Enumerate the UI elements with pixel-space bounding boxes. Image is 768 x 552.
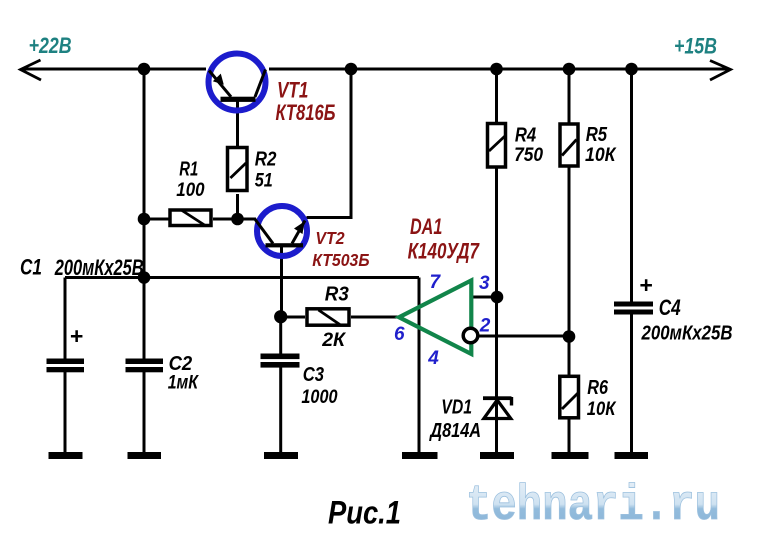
- svg-text:R6: R6: [587, 377, 609, 399]
- svg-text:VD1: VD1: [441, 397, 472, 419]
- svg-text:3: 3: [479, 273, 490, 294]
- svg-text:7: 7: [430, 272, 442, 293]
- svg-text:tehnari.ru: tehnari.ru: [466, 478, 720, 535]
- svg-text:К140УД7: К140УД7: [408, 239, 481, 264]
- svg-text:1000: 1000: [301, 386, 337, 408]
- svg-text:+: +: [639, 272, 652, 298]
- svg-text:+22В: +22В: [29, 33, 72, 58]
- svg-text:DA1: DA1: [410, 214, 442, 239]
- svg-text:C3: C3: [303, 364, 324, 386]
- svg-text:VT1: VT1: [277, 78, 308, 103]
- svg-text:2К: 2К: [321, 329, 347, 351]
- svg-text:1мК: 1мК: [168, 372, 200, 394]
- svg-text:750: 750: [514, 144, 543, 166]
- svg-text:КТ503Б: КТ503Б: [312, 250, 369, 270]
- svg-text:6: 6: [394, 324, 405, 345]
- svg-text:R5: R5: [586, 124, 608, 146]
- svg-text:КТ816Б: КТ816Б: [276, 100, 336, 125]
- svg-text:100: 100: [176, 179, 204, 201]
- svg-text:VT2: VT2: [315, 228, 344, 248]
- svg-text:10К: 10К: [585, 144, 617, 166]
- svg-text:C1: C1: [20, 255, 42, 280]
- svg-text:+: +: [70, 323, 83, 349]
- svg-text:4: 4: [427, 348, 439, 369]
- svg-text:51: 51: [255, 170, 273, 192]
- svg-text:200мКх25В: 200мКх25В: [54, 255, 144, 280]
- svg-text:Рис.1: Рис.1: [328, 495, 401, 531]
- svg-text:R3: R3: [325, 284, 349, 306]
- svg-text:R1: R1: [179, 159, 198, 181]
- svg-text:R2: R2: [255, 149, 277, 171]
- svg-text:2: 2: [479, 316, 491, 337]
- svg-text:C4: C4: [659, 295, 681, 320]
- svg-text:Д814А: Д814А: [429, 419, 481, 442]
- svg-text:+15В: +15В: [674, 34, 717, 59]
- svg-text:200мКх25В: 200мКх25В: [641, 322, 733, 345]
- svg-text:10К: 10К: [587, 398, 617, 420]
